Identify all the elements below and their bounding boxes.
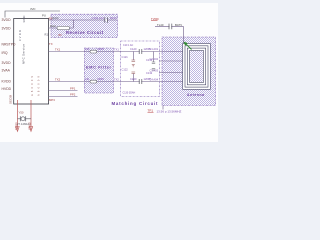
- svg-text:3VDD: 3VDD: [2, 61, 12, 65]
- svg-text:IRQ: IRQ: [2, 51, 8, 55]
- wire stub P2: [49, 96, 78, 98]
- svg-text:C121: C121: [122, 55, 129, 59]
- wire TX2: [49, 81, 121, 83]
- inductor L401: [90, 50, 97, 53]
- svg-text:TX2: TX2: [114, 78, 119, 82]
- svg-text:PU: PU: [42, 14, 46, 18]
- shunt cap C4: [132, 74, 134, 82]
- inductor L402: [90, 80, 97, 83]
- capacitor C2 series bottom: [139, 79, 142, 84]
- svg-text:Y50: Y50: [19, 111, 24, 115]
- svg-text:TX1: TX1: [114, 48, 119, 52]
- svg-text:TX: TX: [49, 42, 53, 46]
- svg-text:RX: RX: [49, 16, 53, 20]
- test point wire: [162, 106, 164, 110]
- crystal Y50: [18, 118, 21, 120]
- svg-text:Rast: Rast: [50, 24, 56, 28]
- svg-text:Rx00: Rx00: [53, 17, 59, 20]
- svg-text:TX1: TX1: [55, 47, 61, 51]
- wire ANT2: [158, 81, 189, 83]
- svg-text:3VD: 3VD: [30, 7, 35, 11]
- offpage arrow 1: [16, 127, 19, 132]
- svg-text:C3 A03: C3 A03: [150, 68, 159, 72]
- sheet background: [0, 0, 218, 149]
- svg-text:M60N: M60N: [98, 78, 105, 81]
- wire RX: [49, 19, 117, 21]
- receive circuit blanket: [51, 14, 118, 37]
- svg-text:NRSTPD: NRSTPD: [2, 43, 16, 47]
- capacitor C1 series top: [139, 49, 142, 54]
- svg-text:C4 A04: C4 A04: [150, 77, 159, 81]
- svg-text:EMC Filter: EMC Filter: [86, 66, 112, 70]
- matching circuit box: [112, 41, 160, 106]
- svg-text:3VDD: 3VDD: [22, 15, 26, 22]
- svg-text:XTAL1: XTAL1: [14, 122, 18, 130]
- svg-text:Receive Circuit: Receive Circuit: [66, 30, 104, 35]
- svg-text:BATV: BATV: [175, 23, 182, 27]
- svg-text:C130 3DAH: C130 3DAH: [123, 92, 136, 95]
- capacitor C40: [169, 24, 172, 30]
- shunt cap C3: [132, 52, 134, 61]
- capacitor C104: [105, 17, 108, 23]
- svg-text:C2 A02: C2 A02: [150, 57, 159, 61]
- wire ANT1: [158, 51, 183, 53]
- svg-text:Antenna: Antenna: [187, 93, 204, 97]
- svg-text:3VDD: 3VDD: [2, 18, 12, 22]
- svg-text:TL40: TL40: [157, 23, 164, 27]
- 3VDD power wire top: [5, 11, 60, 18]
- svg-text:Matching Circuit: Matching Circuit: [112, 101, 159, 106]
- IC U100 NFC device: [14, 15, 49, 104]
- shunt chain right: [153, 52, 155, 63]
- svg-text:C10 1 AC: C10 1 AC: [123, 44, 134, 47]
- wire stub P1: [49, 90, 78, 92]
- svg-text:TVDD: TVDD: [151, 17, 159, 21]
- svg-text:TP1: TP1: [148, 109, 154, 113]
- wire TX1: [49, 51, 121, 53]
- wire tap2: [159, 60, 185, 62]
- svg-text:R32: R32: [45, 34, 50, 37]
- TVDD feed wire: [155, 26, 183, 43]
- crystal wire XTAL1: [17, 100, 19, 130]
- crystal wire XTAL2: [30, 100, 32, 130]
- green tuning arrow: [185, 43, 191, 49]
- svg-text:L40: L40: [85, 78, 90, 81]
- svg-text:3VAA: 3VAA: [2, 69, 11, 73]
- svg-text:C122: C122: [122, 68, 129, 72]
- svg-text:PP2: PP2: [70, 93, 76, 97]
- antenna blanket: [162, 37, 216, 106]
- svg-text:L40: L40: [85, 48, 90, 51]
- EMC filter blanket: [84, 48, 113, 93]
- svg-text:3VDD: 3VDD: [2, 27, 12, 31]
- svg-text:KVDD: KVDD: [2, 80, 12, 84]
- svg-text:SECIB: SECIB: [9, 95, 13, 104]
- svg-text:MP3: MP3: [49, 98, 55, 102]
- wire AUX: [49, 20, 74, 28]
- svg-text:13.56 p 13.56MHZ: 13.56 p 13.56MHZ: [157, 110, 182, 114]
- svg-text:R100: R100: [110, 16, 117, 20]
- svg-text:XTAL2: XTAL2: [28, 122, 32, 130]
- svg-text:NFC Service: NFC Service: [22, 44, 26, 64]
- resistor R101: [57, 26, 70, 29]
- svg-text:C1A0: C1A0: [130, 47, 137, 51]
- svg-text:M60N: M60N: [98, 48, 105, 51]
- ground mid: [132, 65, 135, 68]
- svg-text:C104 104: C104 104: [92, 16, 105, 20]
- svg-text:HVDD: HVDD: [2, 87, 12, 91]
- matching top rail: [121, 51, 159, 53]
- svg-text:TX2: TX2: [55, 77, 61, 81]
- svg-text:PP1: PP1: [70, 87, 76, 91]
- wire tap3: [159, 72, 187, 74]
- svg-text:C1 A01: C1 A01: [150, 47, 159, 51]
- offpage arrow 2: [29, 127, 32, 132]
- antenna coil L1: [183, 44, 211, 90]
- matching bottom rail: [121, 81, 159, 83]
